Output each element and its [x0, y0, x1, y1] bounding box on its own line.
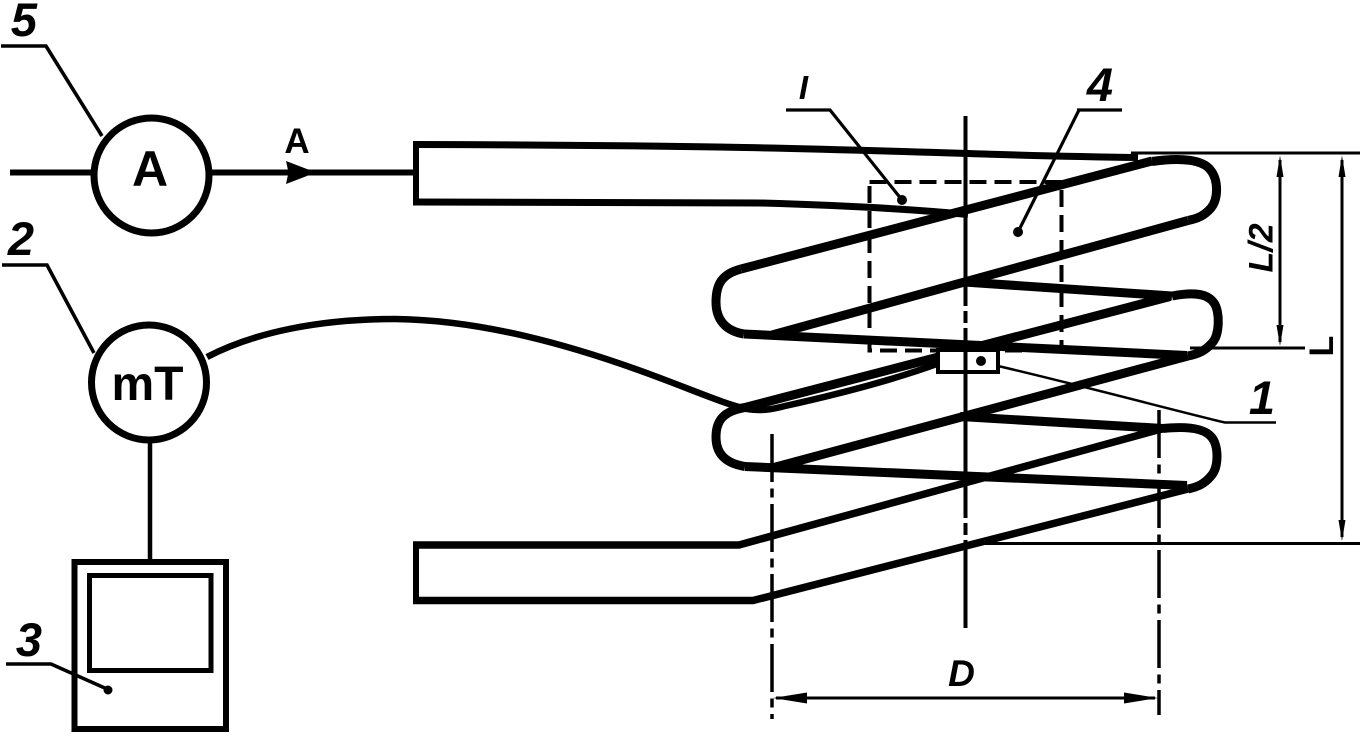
svg-text:4: 4 [1086, 58, 1113, 111]
coil right cap 3 [1163, 428, 1217, 489]
leader slant for 4 [1018, 110, 1079, 232]
svg-text:2: 2 [7, 212, 34, 265]
coil back edge Gb [960, 417, 1163, 429]
leader dot for I [897, 195, 907, 205]
leader for label 5 [1, 46, 102, 136]
coil left cap 2 [716, 408, 745, 467]
coil back edge Ga [964, 282, 1172, 296]
svg-text:1: 1 [1249, 371, 1275, 424]
svg-text:I: I [799, 69, 809, 106]
dashed measuring region I [870, 182, 1062, 351]
svg-text:L: L [1303, 336, 1341, 357]
dimension line D [776, 697, 1155, 700]
extension line middle L/2 [1190, 347, 1305, 350]
dimension line L/2 [1279, 160, 1282, 342]
coil right cap 1 [1152, 159, 1217, 220]
coil axis center line [964, 116, 968, 628]
side dash-dot line left D [770, 434, 774, 719]
coil right cap 2 [1172, 294, 1218, 356]
svg-text:3: 3 [16, 613, 42, 666]
probe 1 rectangle [938, 350, 998, 372]
coil back edge G4 [745, 467, 1187, 486]
L arrow top [1339, 156, 1346, 178]
extension line bottom L [978, 542, 1360, 545]
coil back stroke S2 [772, 221, 1188, 336]
svg-text:5: 5 [11, 0, 38, 46]
extension line top [1131, 152, 1360, 155]
wire teslameter to probe [207, 319, 937, 410]
L/2 arrow bottom [1277, 325, 1284, 346]
dimension line L [1341, 160, 1344, 537]
bottom terminal left edge [413, 542, 419, 604]
D arrow left [773, 693, 807, 704]
side dash-dot line right D [1157, 410, 1161, 715]
svg-text:D: D [948, 653, 975, 694]
coil front stroke S3 [745, 297, 1170, 408]
coil back stroke S6 bottom strip bottom edge [413, 489, 1188, 601]
recorder screen inner [90, 576, 212, 671]
D arrow right [1124, 693, 1158, 704]
svg-text:mT: mT [112, 358, 184, 411]
leader for label 4 [1077, 108, 1122, 111]
wire teslameter to recorder [148, 441, 153, 560]
leader dot for 4 [1013, 227, 1023, 237]
current arrow A [286, 161, 316, 184]
leader for label 2 [2, 265, 94, 353]
probe dot [976, 356, 986, 366]
L arrow bottom [1339, 520, 1346, 541]
coil front stroke S5 bottom strip top edge [413, 429, 1163, 546]
svg-text:A: A [132, 141, 168, 197]
L/2 arrow top [1277, 156, 1284, 178]
leader for label 3 [6, 664, 107, 689]
leader for label I [786, 110, 902, 200]
teslameter U2 circle [92, 325, 207, 440]
coil left cap 1 [716, 269, 744, 334]
wire ammeter to coil terminal [210, 170, 414, 176]
coil axis line over probe [964, 350, 968, 372]
top terminal bottom edge [413, 202, 968, 215]
leader dot for 3 [104, 686, 113, 695]
coil back edge G2 [744, 334, 1187, 356]
svg-text:L/2: L/2 [1243, 223, 1281, 272]
wire into ammeter [10, 170, 95, 176]
top terminal top edge [413, 145, 1138, 158]
coil back stroke S4 [772, 356, 1188, 468]
ammeter U5 circle [94, 118, 209, 233]
coil front stroke S1 [741, 161, 1152, 269]
svg-text:A: A [284, 122, 309, 161]
leader for label 1 [998, 366, 1276, 423]
recorder box 3 outer [75, 562, 227, 729]
top terminal left edge [413, 142, 419, 205]
